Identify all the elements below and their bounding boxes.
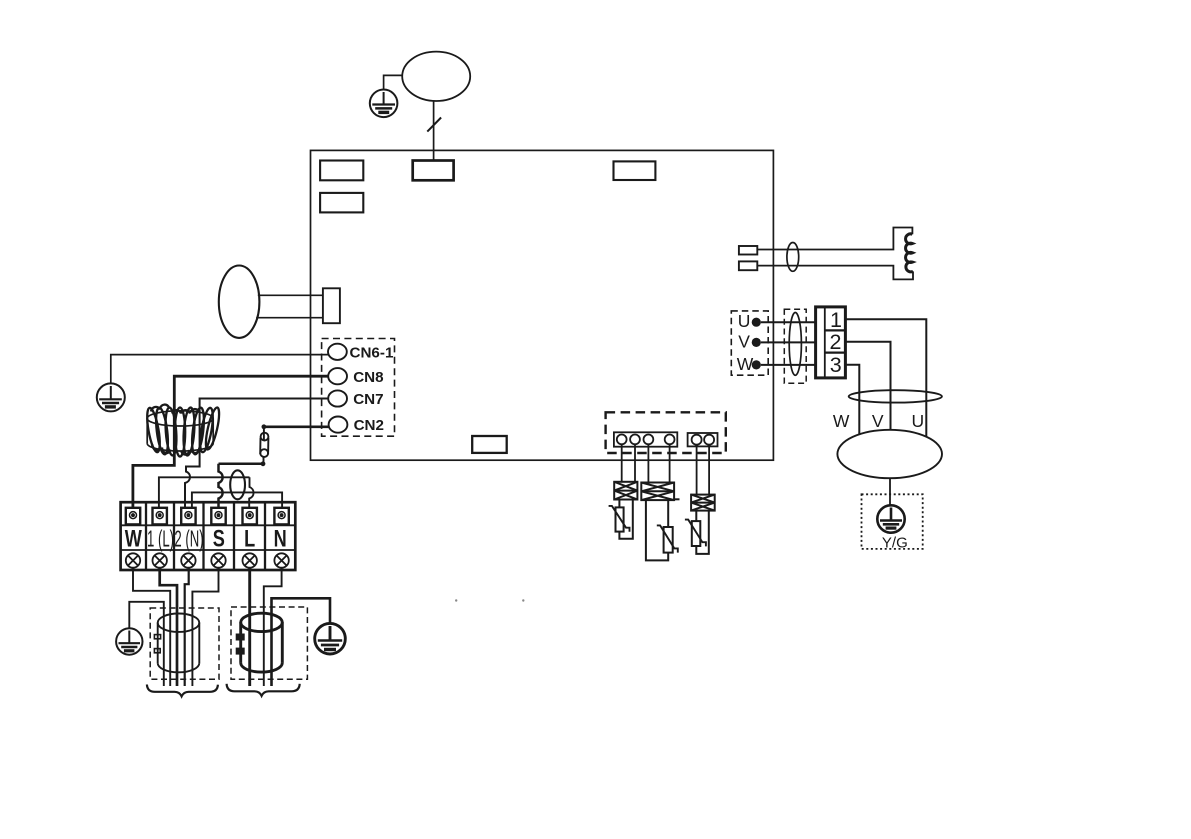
wire bottom-left ground to cable	[129, 602, 164, 686]
wire CN8 to terminal W	[133, 376, 328, 508]
choke wire bottom	[757, 266, 913, 280]
wire 2(N) terminal down to cable	[185, 568, 189, 686]
wire 1(L) terminal down to cable	[160, 568, 177, 686]
connector rect E on PCB left edge	[323, 288, 340, 323]
ground symbol Y/G	[877, 505, 904, 532]
CN connector dashed box	[322, 339, 395, 437]
connector 1 pins	[617, 435, 675, 445]
wire compressor to ground	[889, 478, 891, 505]
Y/G ground dotted box	[862, 494, 923, 549]
capacitor slash on fan wire	[427, 118, 441, 132]
connector CN8	[328, 368, 347, 384]
compressor terminal block 1-2-3	[816, 307, 846, 378]
speck left	[455, 599, 457, 601]
sensor plug 3	[691, 495, 715, 511]
wire W to terminal 3	[761, 364, 816, 366]
svg-text:U: U	[738, 311, 751, 331]
left cable sleeve cylinder	[158, 614, 200, 673]
wire sensor2 pin a	[647, 444, 649, 482]
wire N terminal down to cable	[264, 568, 282, 686]
svg-text:V: V	[738, 332, 750, 352]
wire S terminal down to cable	[192, 568, 218, 686]
right brace (to power supply)	[227, 684, 300, 696]
pin dot U	[752, 318, 761, 327]
svg-text:2 (N): 2 (N)	[174, 527, 203, 553]
grommet ellipse above terminal block	[230, 470, 245, 499]
fuse body	[260, 427, 268, 464]
left brace (to indoor unit)	[147, 685, 218, 697]
svg-text:1 (L): 1 (L)	[147, 527, 174, 553]
pin dot W	[752, 360, 761, 369]
terminal block row lines	[121, 525, 296, 550]
svg-text:Y/G: Y/G	[882, 534, 908, 551]
UVW connector dashed box	[731, 311, 768, 375]
svg-text:W: W	[737, 354, 754, 374]
wire U to terminal 1	[761, 321, 816, 323]
svg-text:CN2: CN2	[354, 417, 384, 434]
svg-text:U: U	[912, 411, 925, 431]
svg-text:W: W	[833, 411, 850, 431]
sensor plug 2	[641, 483, 679, 501]
speck right	[522, 599, 524, 601]
thermistor 2	[646, 500, 678, 560]
wire terminal 1(L) to L with hop	[159, 477, 254, 508]
grommet dashed box (right)	[784, 309, 806, 383]
svg-text:L: L	[244, 524, 255, 552]
wire sensor3 pin a	[696, 445, 698, 495]
wire terminal 2 to compressor V	[845, 342, 890, 430]
thermistor 3	[685, 511, 709, 554]
wire V to terminal 2	[761, 341, 816, 343]
sensor connector dashed box	[606, 412, 726, 453]
ground symbol (mid-left)	[97, 383, 125, 411]
wire left-fan bottom	[256, 317, 323, 319]
wire CN7 to terminal 2(N) with hop	[185, 399, 328, 509]
svg-text:CN6-1: CN6-1	[350, 345, 394, 362]
wire left-fan top	[258, 294, 323, 296]
connector CN6-1	[328, 344, 347, 360]
thermistor 1	[609, 500, 633, 539]
connector 2 pins	[692, 435, 715, 445]
terminal clamp symbols bottom row	[126, 553, 289, 567]
svg-text:2: 2	[830, 330, 842, 354]
terminal block cell dividers	[146, 502, 265, 570]
relay block rect D (top-right)	[614, 161, 656, 180]
ground symbol (fan motor)	[370, 90, 398, 118]
svg-text:CN7: CN7	[353, 391, 383, 408]
wire terminal 2(N) to N	[192, 492, 282, 508]
wire CN2 to fuse	[264, 425, 329, 428]
right sleeve contact squares (filled)	[236, 634, 244, 640]
wire sensor3 pin b	[708, 445, 710, 495]
sensor plug 1	[614, 482, 637, 500]
junction dot fuse bottom	[261, 461, 266, 466]
wire terminal 1 to compressor U	[845, 319, 926, 437]
wire sensor1 pin a	[621, 444, 623, 482]
relay block rect A (top-left)	[320, 161, 363, 181]
svg-text:V: V	[872, 411, 884, 431]
sensor connector 2 (2-pin)	[688, 433, 718, 446]
terminal screws top row	[126, 508, 289, 525]
wire fan-motor ground	[384, 75, 403, 89]
choke coil	[906, 234, 913, 272]
compressor grommet flat ellipse	[849, 390, 942, 402]
svg-text:N: N	[274, 524, 287, 552]
pin dot V	[752, 338, 761, 347]
wire fuse to terminal S with hops	[219, 464, 264, 509]
right cable sleeve dashed box	[231, 607, 307, 679]
toroidal transformer core	[147, 411, 213, 451]
wire fan motor to PCB rect C	[433, 101, 435, 161]
ground symbol (bottom-left)	[116, 628, 142, 654]
choke grommet ellipse	[787, 243, 799, 272]
left sleeve contact squares	[154, 635, 160, 639]
left fan motor	[219, 266, 260, 338]
terminal screw circles	[130, 512, 286, 519]
ground symbol (bottom-right)	[315, 623, 346, 654]
compressor motor ellipse	[837, 430, 942, 478]
fan motor (top)	[402, 52, 470, 101]
choke connector rect 1	[739, 246, 757, 255]
wire sensor2 pin b	[669, 444, 671, 482]
wire sensor1 pin b	[634, 444, 636, 482]
svg-text:CN8: CN8	[353, 369, 383, 386]
left cable sleeve dashed box	[150, 608, 219, 679]
svg-text:W: W	[125, 524, 143, 552]
sensor connector 1 (4-pin)	[614, 432, 677, 446]
grommet ellipse (right)	[789, 313, 801, 376]
junction dot fuse top	[262, 424, 267, 429]
PCB main board outline	[311, 150, 774, 460]
wire ground to CN6-1	[111, 355, 328, 384]
relay block rect B	[320, 193, 363, 213]
svg-text:S: S	[213, 524, 225, 552]
wire L terminal down to cable	[248, 568, 251, 686]
bottom small rect on PCB	[472, 436, 507, 453]
wire terminal 3 to compressor W	[845, 365, 859, 435]
connector CN7	[328, 390, 347, 406]
wire bottom-right ground to cable	[272, 598, 331, 686]
wire W terminal down to cable	[133, 568, 170, 686]
terminal block outer	[121, 502, 296, 570]
connector CN2	[329, 417, 348, 433]
svg-text:3: 3	[830, 353, 842, 377]
fan connector rect C	[413, 161, 454, 181]
choke connector rect 2	[739, 261, 757, 270]
right cable sleeve cylinder	[241, 613, 283, 672]
svg-text:1: 1	[830, 308, 842, 332]
choke wire top	[757, 228, 912, 250]
transformer windings	[145, 405, 222, 457]
